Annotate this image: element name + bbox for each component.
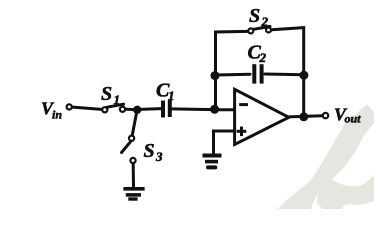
svg-text:2: 2 [259, 50, 267, 65]
svg-text:1: 1 [114, 92, 121, 107]
svg-text:S: S [249, 5, 260, 27]
svg-text:S: S [101, 83, 112, 105]
svg-text:in: in [52, 108, 62, 122]
svg-text:out: out [345, 112, 362, 126]
svg-text:S: S [144, 140, 155, 162]
svg-text:3: 3 [155, 149, 163, 164]
svg-text:2: 2 [261, 14, 269, 29]
svg-text:1: 1 [168, 88, 175, 103]
